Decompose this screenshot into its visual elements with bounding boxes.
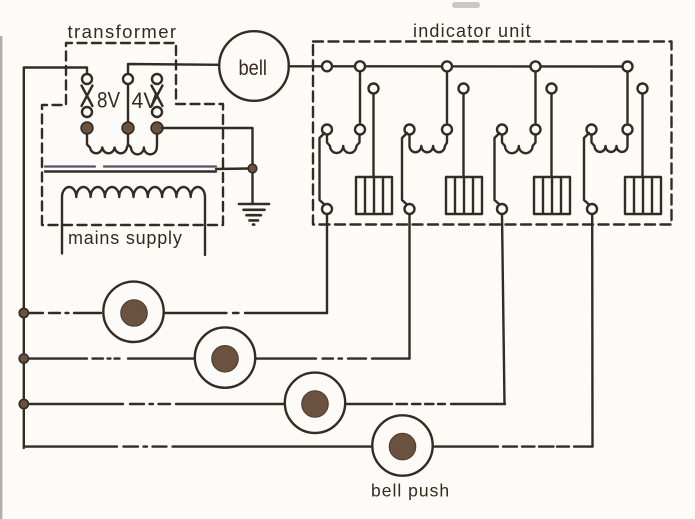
junction dot row3 on left bus xyxy=(19,399,28,408)
indicator coil unit3 xyxy=(502,135,536,153)
wire: bus riser unit1 xyxy=(359,72,361,123)
coil circle unit3 right xyxy=(531,125,541,135)
junction dot row2 on left bus xyxy=(19,354,28,363)
wire: left bus from 8V terminal down left side xyxy=(24,68,87,449)
transformer secondary winding L2 (4V section) xyxy=(128,134,157,154)
coil circle unit4 left xyxy=(587,125,597,135)
pivot circle unit1 xyxy=(369,84,379,94)
bell push P1 xyxy=(103,282,163,342)
wire: bus riser unit2 xyxy=(446,72,448,123)
wire: 4V tap to earth junction xyxy=(162,128,253,164)
bus terminal circle unit4 xyxy=(623,62,633,72)
transformer primary winding xyxy=(62,187,205,255)
label: indicator unit xyxy=(413,21,532,41)
wire: earth junction to ground xyxy=(251,173,253,203)
wire: flag stem unit1 xyxy=(372,94,374,177)
wire: row4 (dash-dot) xyxy=(24,445,593,447)
coil circle unit4 right xyxy=(623,125,633,135)
pivot circle unit4 xyxy=(638,84,648,94)
bus terminal circle unit1 xyxy=(355,61,365,71)
fuse X on 8V terminal xyxy=(82,86,93,107)
wire: bus riser unit4 xyxy=(626,72,628,123)
junction dot: earth node xyxy=(248,164,257,173)
lower terminal circle unit3 xyxy=(497,204,507,214)
bus terminal circle (entry) xyxy=(322,61,332,71)
coil circle unit3 left xyxy=(497,125,507,135)
pivot circle unit3 xyxy=(547,84,557,94)
coil circle unit1 right xyxy=(355,125,365,135)
bell push P4 xyxy=(372,415,432,475)
wire: unit3 drop to push row3 xyxy=(502,215,505,405)
wire: unit2 coil to lower terminal xyxy=(402,133,407,205)
label: transformer xyxy=(68,21,178,42)
wire: row2 (dash-dot) xyxy=(29,357,410,359)
wire: unit1 drop to push row1 xyxy=(326,215,328,314)
indicator coil unit1 xyxy=(327,135,360,153)
wire: unit4 drop to push row4 xyxy=(591,215,594,447)
wire: T2 to bell xyxy=(128,64,221,74)
wire: bus riser unit3 xyxy=(534,72,536,123)
indicator coil unit2 xyxy=(410,135,448,152)
wire: flag stem unit4 xyxy=(641,94,643,177)
junction dot row1 on left bus xyxy=(19,308,28,317)
terminal circle T2 top (middle) xyxy=(123,74,133,84)
label: 4V xyxy=(132,88,158,113)
terminal circle T3 lower xyxy=(152,107,162,117)
indicator unit dashed enclosure xyxy=(313,42,672,225)
fuse X on 4V terminal xyxy=(152,86,163,107)
junction dot: secondary tap right xyxy=(151,122,163,134)
label: mains supply xyxy=(68,228,183,248)
bell B1 xyxy=(219,31,289,101)
svg-text:8V: 8V xyxy=(97,88,120,113)
transformer secondary winding L1 (8V section) xyxy=(87,134,128,153)
junction dot: secondary tap middle xyxy=(122,122,134,134)
svg-text:4V: 4V xyxy=(132,88,158,113)
svg-text:bell push: bell push xyxy=(371,481,450,501)
label: 8V xyxy=(97,88,120,113)
label: bell push xyxy=(371,481,450,501)
wire: unit4 coil to lower terminal xyxy=(584,133,589,205)
indicator flag unit3 xyxy=(534,177,570,214)
wire: bell to indicator bus xyxy=(289,65,628,68)
wire: core to earth junction xyxy=(216,167,249,170)
wire: row1 (dash-dot) xyxy=(29,312,327,314)
wire: T2 stem xyxy=(127,85,129,123)
coil circle unit1 left xyxy=(322,125,332,135)
indicator coil unit4 xyxy=(592,135,628,152)
lower terminal circle unit1 xyxy=(322,204,332,214)
terminal circle T1 top (8V tap) xyxy=(82,74,92,84)
lower terminal circle unit2 xyxy=(405,204,415,214)
indicator flag unit4 xyxy=(625,177,661,214)
junction dot: secondary tap left xyxy=(81,122,93,134)
wire: flag stem unit3 xyxy=(550,94,552,177)
bus terminal circle unit3 xyxy=(531,61,541,71)
wire: row3 (dash-dot) xyxy=(29,403,505,405)
wire: unit2 drop to push row2 xyxy=(408,215,410,359)
ground (earth) symbol xyxy=(239,204,269,225)
indicator flag unit2 xyxy=(446,177,482,214)
wire: unit1 coil to lower terminal xyxy=(320,133,325,205)
svg-text:transformer: transformer xyxy=(68,21,178,42)
lower terminal circle unit4 xyxy=(587,204,597,214)
transformer core upper lamination xyxy=(45,165,216,167)
svg-text:indicator unit: indicator unit xyxy=(413,21,532,41)
bell push P2 xyxy=(195,327,255,387)
bell push P3 xyxy=(285,373,345,433)
svg-text:mains supply: mains supply xyxy=(68,228,183,248)
terminal circle T3 top (4V tap) xyxy=(152,74,162,84)
transformer core lower lamination xyxy=(45,170,216,172)
indicator flag unit1 xyxy=(356,177,392,214)
bus terminal circle unit2 xyxy=(442,61,452,71)
wire: unit3 coil to lower terminal xyxy=(495,133,500,205)
wire: flag stem unit2 xyxy=(462,94,464,177)
coil circle unit2 left xyxy=(405,125,415,135)
coil circle unit2 right xyxy=(442,125,452,135)
svg-text:bell: bell xyxy=(239,56,268,80)
transformer / mains supply dashed enclosure xyxy=(42,43,223,225)
terminal circle T1 lower xyxy=(82,107,92,117)
pivot circle unit2 xyxy=(459,84,469,94)
label: bell xyxy=(239,56,268,80)
